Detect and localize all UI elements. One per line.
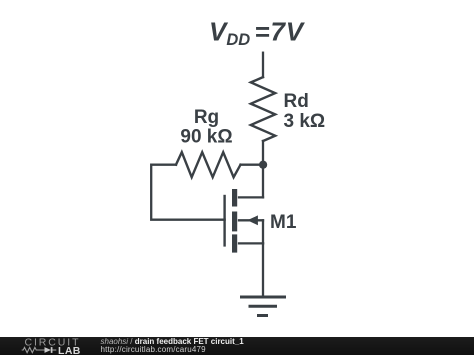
footer credit line 1 xyxy=(101,338,244,346)
svg-text:M1: M1 xyxy=(270,212,297,233)
svg-text:Rd: Rd xyxy=(284,91,309,112)
svg-text:90 kΩ: 90 kΩ xyxy=(180,127,232,148)
M1 body bar xyxy=(232,212,237,232)
svg-text:=7V: =7V xyxy=(255,16,306,46)
resistor Rd xyxy=(251,77,275,141)
ground xyxy=(240,297,286,316)
wire drain stub xyxy=(239,196,263,198)
wire body corner down to source xyxy=(262,220,264,243)
wire Rg left to gate xyxy=(151,165,224,220)
svg-text:VDD: VDD xyxy=(209,16,250,49)
footer url line 2 xyxy=(101,346,206,354)
transistor M1 xyxy=(223,189,258,253)
M1 source bar xyxy=(232,234,237,252)
resistor Rg xyxy=(176,152,241,177)
svg-text:Rg: Rg xyxy=(194,107,219,128)
M1 gate line xyxy=(223,195,225,247)
wire Rd bottom to node xyxy=(262,141,264,165)
wire body stub xyxy=(239,219,263,221)
node at Rd/Rg/drain junction xyxy=(259,161,267,169)
wire source to ground xyxy=(262,243,264,297)
svg-text:3 kΩ: 3 kΩ xyxy=(284,111,326,132)
wire VDD to Rd top xyxy=(262,53,264,77)
wire node to Rg right xyxy=(241,164,264,166)
M1 body arrow xyxy=(247,215,258,225)
footer bar xyxy=(0,337,474,355)
wire node down to drain stub xyxy=(262,165,264,198)
wire source stub xyxy=(239,242,263,244)
CircuitLab logo xyxy=(21,337,116,355)
svg-text:LAB: LAB xyxy=(58,345,81,355)
M1 drain bar xyxy=(232,189,237,207)
